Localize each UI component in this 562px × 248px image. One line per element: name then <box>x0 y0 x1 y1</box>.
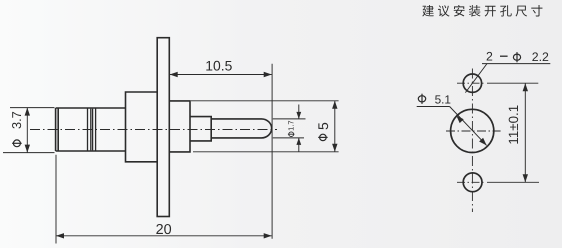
center contact pin with rounded tip <box>211 119 272 138</box>
dimension φ3.7 top extension line <box>10 107 55 109</box>
label φ5.1 leader with diameter arrows <box>450 107 487 146</box>
extension line at barrel left end <box>55 155 57 244</box>
label 2-φ2.2 value 2.2 <box>532 50 549 64</box>
dimension φ1.7 line with outside arrows <box>296 105 301 152</box>
top hole horizontal centerline <box>457 82 484 84</box>
center hole horizontal centerline <box>446 130 501 132</box>
dimension φ1.7 diameter symbol <box>288 132 295 137</box>
bottom mounting hole φ2.2 circle <box>463 173 482 192</box>
dimension φ3.7 bottom extension line <box>3 152 55 154</box>
barrel snap-ring grooves <box>88 108 96 150</box>
dimension φ3.7 line with arrows <box>25 108 30 153</box>
top mounting hole φ2.2 circle <box>463 74 481 92</box>
dimension φ1.7 top extension line <box>273 118 306 120</box>
label 2-φ2.2 diameter symbol <box>513 52 520 62</box>
dimension φ3.7 value 3.7 <box>9 111 24 129</box>
label 2-φ2.2 leader line <box>465 64 487 93</box>
svg-text:20: 20 <box>156 222 172 238</box>
label φ5.1 value 5.1 <box>435 93 451 107</box>
hex nut body block <box>126 92 158 162</box>
center mounting hole φ5.1 circle <box>451 109 494 152</box>
bottom hole horizontal centerline <box>457 181 484 183</box>
insulator step section <box>190 117 211 141</box>
top hole extension line to dimension <box>487 82 538 84</box>
label φ5.1 underline <box>417 106 450 108</box>
dimension 20 label <box>156 222 172 238</box>
dimension φ5 diameter symbol <box>318 134 327 140</box>
label φ5.1 diameter symbol <box>418 94 425 104</box>
centerline of connector axis <box>30 129 277 131</box>
dimension φ5 line with arrows <box>332 101 337 152</box>
dimension φ3.7 diameter symbol <box>12 140 22 147</box>
label 2-φ2.2 underline <box>482 63 550 65</box>
φ5 body section behind flange <box>169 101 190 152</box>
mounting flange <box>157 38 169 217</box>
dimension φ5 top extension line <box>191 100 339 102</box>
dimension φ5 value 5 <box>315 122 331 130</box>
dimension 20 line with arrows <box>56 233 272 238</box>
dimension 10.5 label <box>205 58 232 74</box>
svg-text:1.7: 1.7 <box>287 120 296 130</box>
svg-text:5: 5 <box>315 122 331 130</box>
svg-text:5.1: 5.1 <box>435 93 451 107</box>
bottom hole extension line to dimension <box>487 181 539 183</box>
svg-text:2.2: 2.2 <box>532 50 549 64</box>
title text 建议安装开孔尺寸 (recommended mounting hole dimensions) <box>422 5 542 17</box>
dimension φ1.7 value 1.7 <box>287 120 296 130</box>
vertical centerline of mounting holes <box>471 69 473 213</box>
svg-text:11±0.1: 11±0.1 <box>506 105 521 145</box>
dimension 11±0.1 label <box>506 105 521 145</box>
connector left barrel outline <box>56 108 126 151</box>
label 2-φ2.2 count 2 <box>486 50 493 64</box>
dimension φ5 bottom extension line <box>193 151 339 153</box>
dimension 11±0.1 line with arrows <box>523 83 528 182</box>
dimension 10.5 line with arrows <box>170 72 272 77</box>
svg-text:2: 2 <box>486 50 493 64</box>
extension line at pin tip <box>271 64 273 239</box>
dimension φ1.7 bottom extension line <box>273 137 304 139</box>
svg-text:10.5: 10.5 <box>205 58 232 74</box>
label 2-φ2.2 dash <box>500 55 508 57</box>
svg-text:3.7: 3.7 <box>9 111 24 129</box>
